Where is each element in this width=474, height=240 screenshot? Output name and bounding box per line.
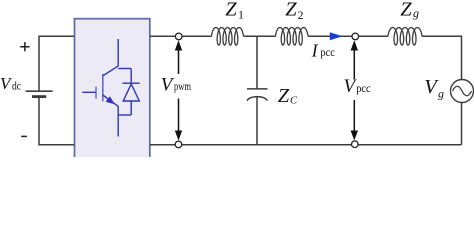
- diode D1 vertical lead: [130, 69, 132, 116]
- wire top run Z2 to node pcc: [308, 35, 355, 37]
- wire top-right corner to Vg: [422, 36, 462, 79]
- node pcc bottom: [352, 141, 359, 148]
- label plus terminal: [20, 42, 29, 51]
- capacitor ZC curved plate: [247, 97, 267, 101]
- transistor Q1 gate lead: [82, 91, 95, 93]
- label Z2: [285, 0, 303, 22]
- diode D1 top connection: [118, 68, 131, 70]
- wire bottom run inverter to Vg: [150, 144, 462, 146]
- label Vg: [424, 76, 444, 100]
- label Vdc: [0, 74, 21, 93]
- ac source Vg sine wave: [453, 86, 472, 96]
- current Ipcc arrow: [330, 32, 343, 40]
- node pcc top: [352, 33, 359, 40]
- battery Vdc long plate: [26, 90, 53, 92]
- transistor Q1 collector lead: [103, 39, 118, 76]
- voltage Vpcc down arrow: [351, 100, 358, 140]
- label ZC: [278, 85, 298, 107]
- svg-text:1: 1: [238, 7, 244, 21]
- svg-text:dc: dc: [12, 80, 21, 93]
- diode D1 cathode bar: [123, 82, 140, 84]
- svg-text:pcc: pcc: [356, 82, 370, 95]
- svg-text:V: V: [424, 76, 439, 98]
- wire top run inverter to Z1: [150, 35, 212, 37]
- inductor Z1: [212, 28, 244, 46]
- ac source Vg circle: [451, 80, 474, 103]
- diode D1 bottom connection: [118, 114, 131, 116]
- label Zg: [400, 0, 419, 20]
- svg-text:I: I: [311, 40, 319, 60]
- capacitor ZC top plate: [247, 88, 268, 90]
- inverter block U1: [75, 19, 150, 164]
- wire top run node pcc to Zg: [355, 35, 388, 37]
- transistor Q1 body bar: [102, 74, 104, 101]
- wire bottom-right corner below Vg: [461, 103, 463, 145]
- svg-text:C: C: [290, 96, 298, 107]
- transistor Q1 emitter arrow: [106, 96, 115, 104]
- label Vpwm: [161, 74, 191, 95]
- capacitor ZC upper lead: [256, 36, 258, 89]
- label Z1: [225, 0, 244, 21]
- svg-text:V: V: [161, 74, 175, 95]
- svg-text:pwm: pwm: [174, 81, 191, 94]
- voltage Vpwm down arrow: [175, 99, 182, 141]
- wire bottom-left from battery to inverter: [39, 98, 74, 145]
- inductor Zg: [388, 28, 422, 46]
- svg-text:g: g: [438, 86, 444, 100]
- diode D1 triangle: [123, 84, 139, 101]
- node pwm top: [175, 33, 182, 40]
- voltage Vpcc up arrow: [351, 40, 358, 79]
- svg-text:2: 2: [298, 8, 304, 22]
- voltage Vpwm up arrow: [175, 40, 182, 74]
- label minus terminal: [21, 135, 27, 137]
- svg-text:g: g: [413, 6, 419, 20]
- svg-text:V: V: [0, 74, 13, 93]
- battery Vdc short plate: [32, 95, 46, 98]
- svg-text:Z: Z: [278, 85, 290, 107]
- svg-text:Z: Z: [400, 0, 412, 20]
- inductor Z2: [276, 28, 309, 46]
- wire top-left from battery to inverter: [39, 36, 74, 91]
- label Vpcc: [344, 76, 371, 97]
- svg-text:Z: Z: [285, 0, 297, 20]
- wire top run Z1 to Z2: [244, 35, 276, 37]
- label Ipcc: [311, 40, 335, 60]
- svg-text:Z: Z: [225, 0, 237, 20]
- transistor Q1 gate bar: [95, 87, 97, 99]
- transistor Q1 emitter lead: [103, 95, 118, 137]
- node pwm bottom: [175, 141, 182, 148]
- svg-text:pcc: pcc: [320, 47, 334, 60]
- capacitor ZC lower lead: [256, 97, 258, 145]
